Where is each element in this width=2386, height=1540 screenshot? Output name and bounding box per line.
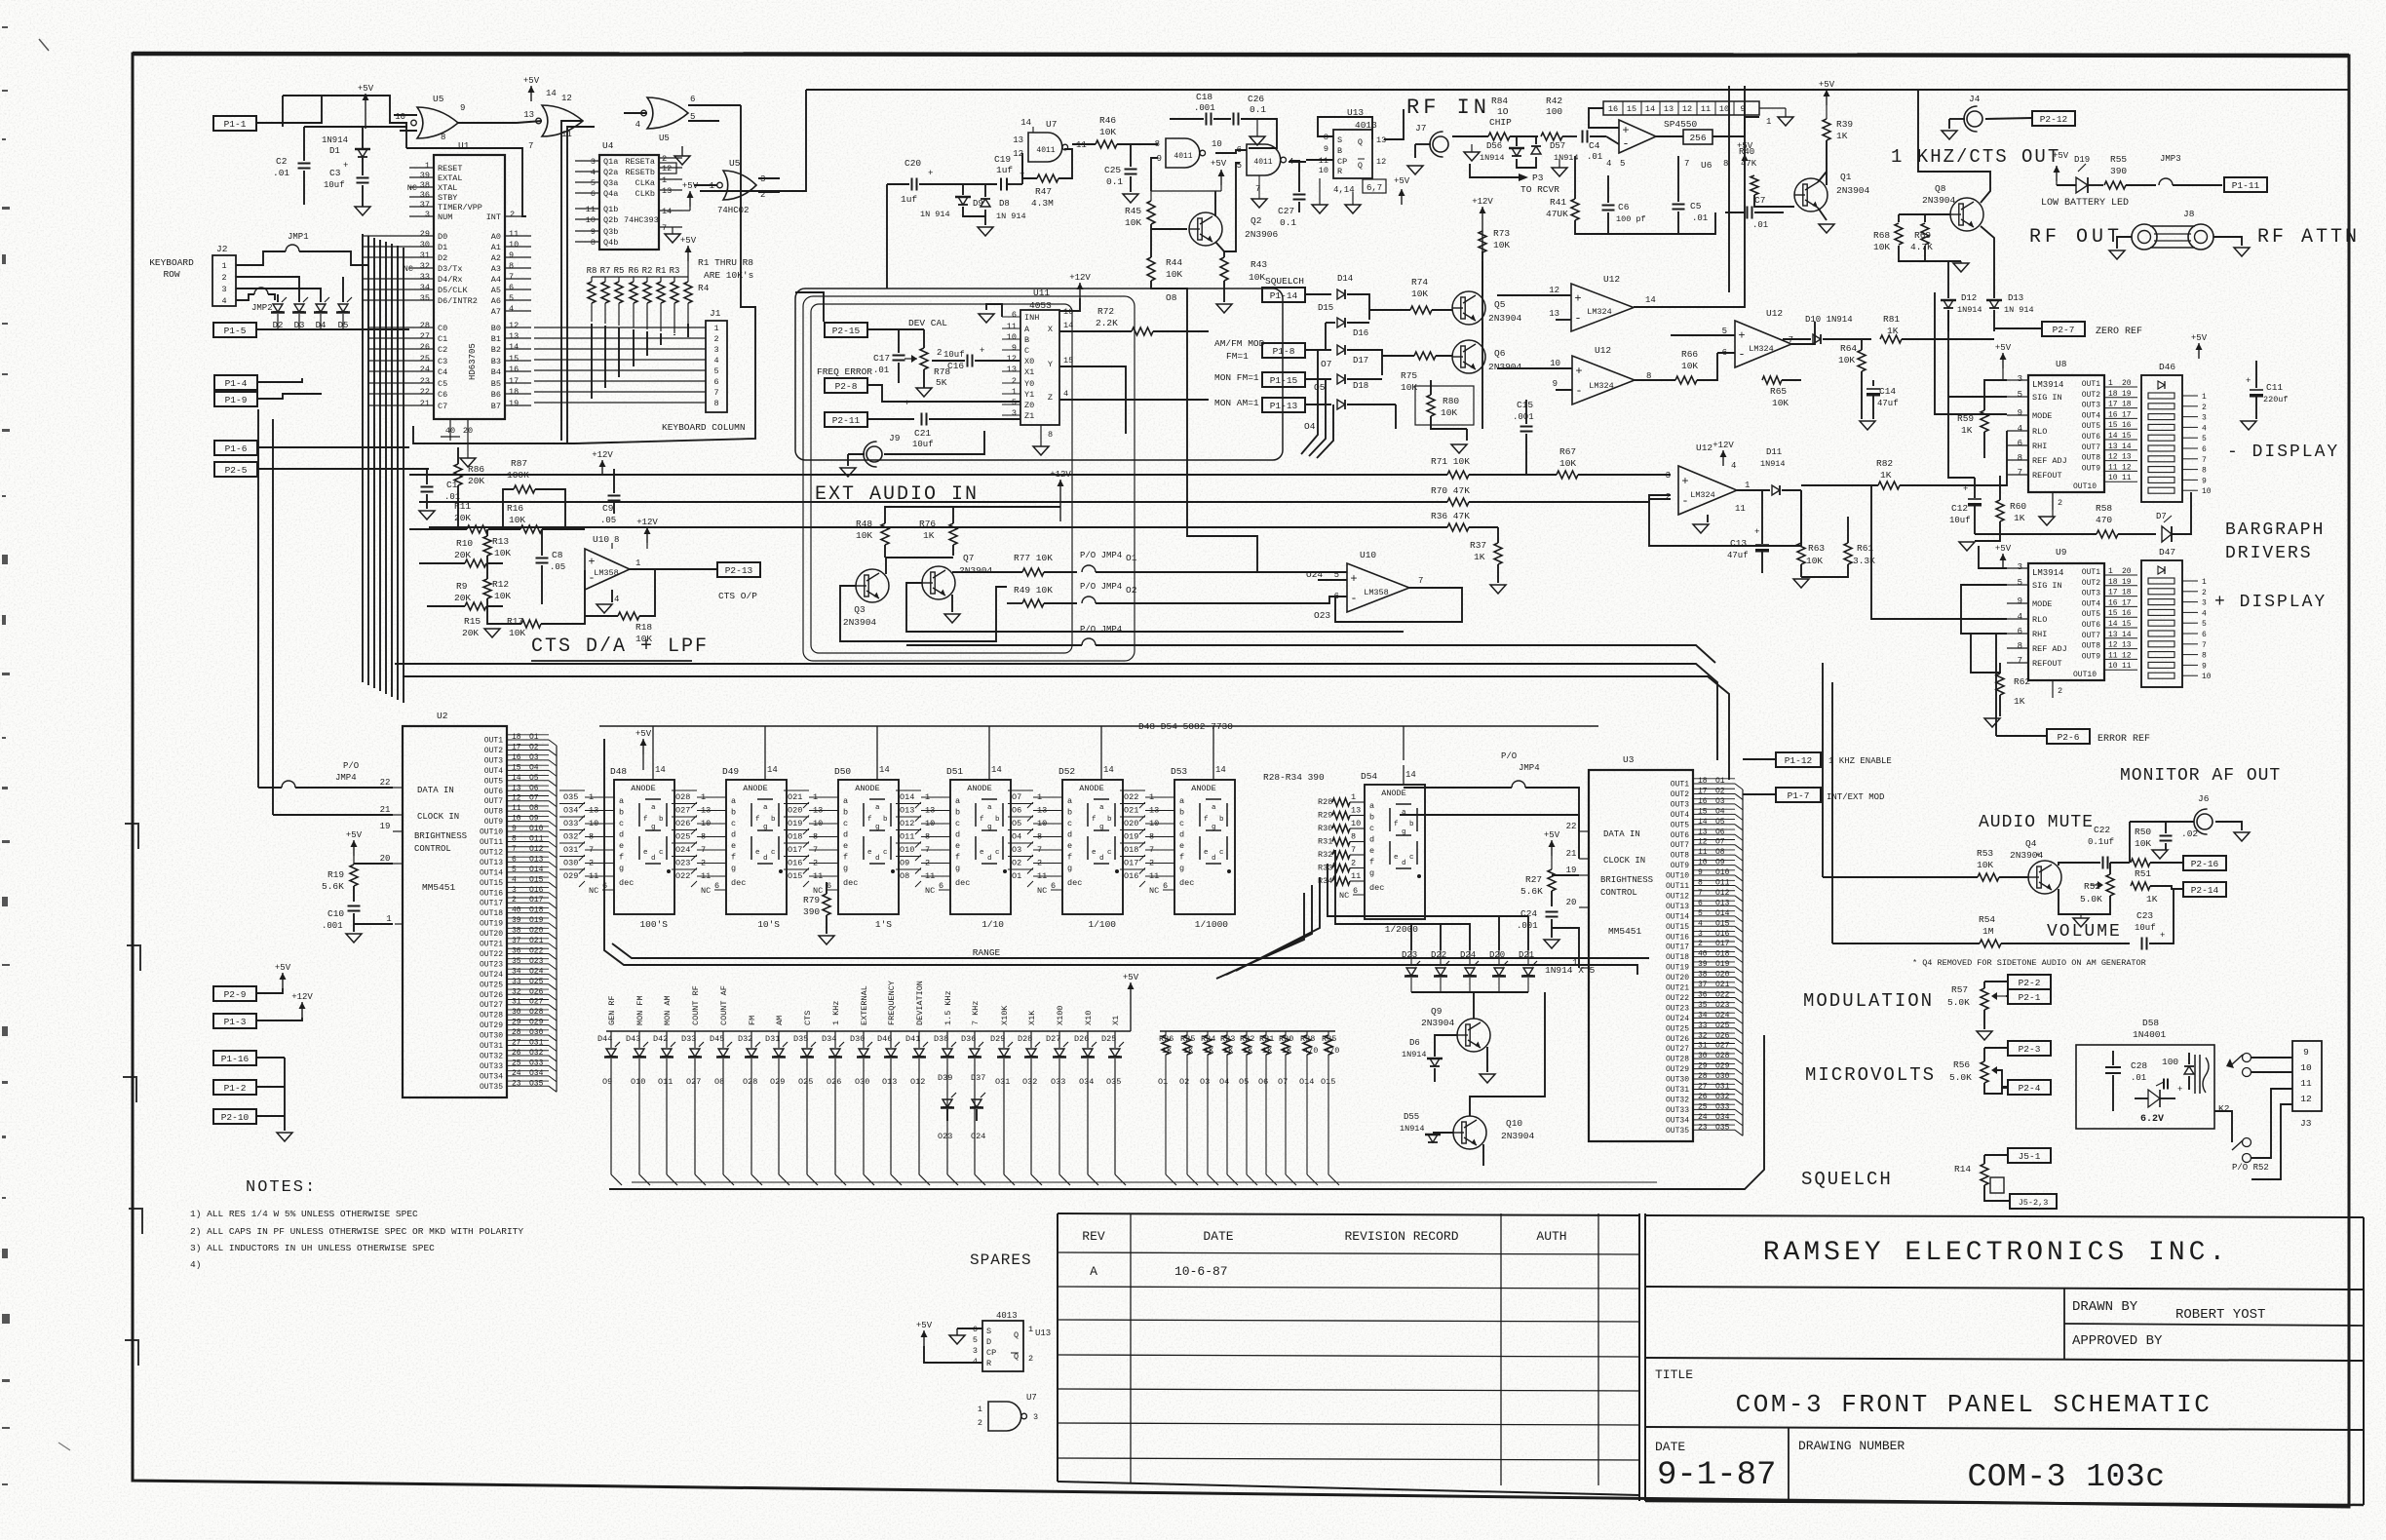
svg-text:8: 8 [1351,832,1356,842]
svg-text:8: 8 [2202,467,2207,476]
svg-text:Q3a: Q3a [603,178,618,188]
svg-text:1N914: 1N914 [322,135,348,145]
svg-text:14: 14 [546,89,557,98]
svg-text:31: 31 [1698,1042,1708,1051]
svg-text:g: g [1369,868,1374,878]
svg-text:47uf: 47uf [1877,399,1899,408]
svg-text:5: 5 [1698,909,1703,918]
svg-text:ERROR REF: ERROR REF [2097,734,2150,745]
svg-text:OUT6: OUT6 [1671,831,1689,840]
svg-text:f: f [843,853,848,863]
svg-text:.01: .01 [1752,220,1768,230]
ground under R62 [1984,718,2000,727]
svg-text:LM3914: LM3914 [2032,568,2063,578]
svg-text:2: 2 [510,210,515,219]
svg-text:R8: R8 [587,266,597,276]
svg-text:.01: .01 [873,366,889,375]
svg-text:MODE: MODE [2032,411,2052,421]
svg-text:10: 10 [586,215,596,225]
right boundary wire of keyboard block [575,105,755,443]
svg-text:SQUELCH: SQUELCH [1801,1169,1893,1190]
svg-text:OUT28: OUT28 [1666,1056,1689,1064]
svg-text:OUT1: OUT1 [2082,380,2100,389]
svg-text:OUT31: OUT31 [1666,1086,1689,1095]
connector P2-8 [825,378,867,393]
svg-text:5: 5 [509,293,514,303]
svg-text:g: g [875,824,880,831]
ground of P1-16/P1-2/P2-10 [284,1058,286,1131]
svg-text:27: 27 [420,331,430,341]
arrow P3 TO RCVR [1470,164,1519,177]
svg-text:.05: .05 [600,516,616,525]
svg-text:26: 26 [1698,1093,1708,1101]
svg-text:D25: D25 [1101,1034,1116,1044]
svg-text:U5: U5 [659,134,670,143]
svg-text:7: 7 [528,141,533,151]
svg-text:OUT4: OUT4 [484,767,503,776]
svg-text:2N3904: 2N3904 [1488,313,1522,324]
wires U8/U9 sig chain [1984,380,2007,400]
svg-text:37: 37 [420,200,430,210]
matrix drop wires [1301,350,1318,454]
svg-text:D43: D43 [626,1034,640,1044]
svg-text:7: 7 [1684,159,1689,169]
svg-text:4: 4 [1606,159,1611,169]
svg-text:R49 10K: R49 10K [1014,585,1053,596]
svg-text:U4: U4 [602,140,614,151]
svg-text:e: e [1369,846,1374,856]
svg-text:OUT27: OUT27 [480,1001,503,1010]
svg-text:34: 34 [420,283,430,292]
svg-text:b: b [619,808,624,818]
svg-text:X10: X10 [1084,1011,1094,1025]
svg-text:2N3904: 2N3904 [1488,362,1522,372]
svg-text:CLOCK IN: CLOCK IN [417,812,459,822]
svg-text:a: a [731,796,736,806]
svg-text:c: c [883,849,888,857]
svg-text:R29: R29 [1318,811,1332,821]
svg-text:a: a [1179,796,1184,806]
svg-text:J3: J3 [2300,1118,2312,1129]
svg-text:14: 14 [991,765,1002,775]
svg-text:20K: 20K [468,476,484,486]
svg-text:P/O JMP4: P/O JMP4 [1080,625,1122,635]
svg-text:RAMSEY ELECTRONICS INC.: RAMSEY ELECTRONICS INC. [1763,1238,2229,1268]
svg-text:1: 1 [2202,393,2207,402]
svg-text:COM-3 103c: COM-3 103c [1967,1459,2165,1495]
svg-text:C24: C24 [1520,908,1537,919]
svg-text:10K: 10K [1873,242,1890,252]
svg-text:D27: D27 [1046,1034,1060,1044]
power connector P2-9 [213,986,256,1001]
svg-text:5: 5 [1012,398,1017,407]
svg-text:OUT34: OUT34 [1666,1116,1689,1125]
svg-text:TITLE: TITLE [1655,1367,1693,1382]
svg-text:O1: O1 [1012,871,1021,881]
svg-text:g: g [1402,828,1406,836]
svg-text:dec: dec [843,878,858,888]
svg-text:d: d [1099,855,1104,863]
svg-text:17: 17 [509,376,519,386]
svg-text:O5: O5 [1314,382,1326,393]
svg-text:4.3M: 4.3M [1031,198,1054,209]
svg-text:O35: O35 [1106,1077,1121,1087]
transistor Q9 2N3904 [1457,1019,1490,1052]
svg-text:+: + [1574,292,1581,306]
svg-text:O28: O28 [675,792,690,802]
svg-text:15: 15 [1698,807,1708,816]
svg-text:C28: C28 [2131,1060,2147,1071]
svg-text:OUT7: OUT7 [1671,841,1689,850]
svg-text:R7: R7 [600,266,611,276]
svg-text:390: 390 [2110,166,2127,176]
svg-text:CLOCK IN: CLOCK IN [1603,856,1645,866]
svg-text:1M: 1M [1982,926,1994,937]
svg-text:+: + [928,169,933,178]
svg-text:14: 14 [1215,765,1226,775]
capacitor C28 .01 [2105,1066,2121,1068]
svg-text:SIG IN: SIG IN [2032,581,2062,591]
ground under C26 [1250,136,1265,145]
svg-text:c: c [771,849,776,857]
svg-text:RESETa: RESETa [625,157,655,167]
+12V at U10 [646,527,648,543]
svg-text:g: g [955,864,960,873]
svg-text:15: 15 [1063,356,1073,366]
wire U12b out [1791,322,1815,344]
svg-text:-: - [1622,136,1629,150]
svg-text:f: f [1204,816,1209,824]
svg-text:6: 6 [509,283,514,292]
drawn by box [2063,1288,2065,1360]
svg-text:10-6-87: 10-6-87 [1174,1264,1228,1279]
svg-text:AUDIO MUTE: AUDIO MUTE [1979,813,2094,832]
svg-text:O5: O5 [1012,819,1021,828]
svg-text:1K: 1K [2014,513,2025,523]
svg-text:O32: O32 [563,832,578,842]
svg-text:Q1a: Q1a [603,157,618,167]
svg-text:-: - [1575,384,1582,398]
svg-text:e: e [955,841,960,851]
svg-text:c: c [955,819,960,828]
svg-text:S: S [986,1327,991,1336]
svg-text:26: 26 [420,342,430,352]
svg-text:b: b [995,816,1000,824]
svg-text:14: 14 [879,765,890,775]
svg-text:33: 33 [420,272,430,282]
svg-text:19: 19 [380,822,391,831]
svg-text:B6: B6 [491,390,501,400]
svg-text:O19: O19 [1124,832,1138,842]
svg-text:R39: R39 [1836,119,1853,130]
svg-text:U1: U1 [458,140,470,151]
svg-text:SIG IN: SIG IN [2032,393,2062,403]
svg-text:g: g [619,864,624,873]
svg-text:36: 36 [420,190,430,200]
svg-text:+: + [2177,1085,2182,1095]
svg-text:OUT30: OUT30 [1666,1076,1689,1085]
svg-text:O32: O32 [529,1049,544,1058]
svg-text:+: + [1963,484,1968,494]
svg-text:C16: C16 [947,361,964,371]
svg-text:e: e [755,849,760,857]
svg-text:R65: R65 [1770,386,1787,397]
svg-text:D10 1N914: D10 1N914 [1805,315,1853,325]
svg-text:1uf: 1uf [996,165,1013,175]
svg-text:26: 26 [512,1049,521,1058]
svg-text:REF ADJ: REF ADJ [2032,456,2067,466]
svg-text:LM358: LM358 [1364,588,1389,597]
svg-text:8: 8 [1155,139,1160,149]
svg-text:2N3904: 2N3904 [843,617,877,628]
svg-text:B1: B1 [491,334,501,344]
svg-text:.001: .001 [322,921,343,931]
svg-text:1: 1 [386,914,391,924]
svg-text:29: 29 [420,229,430,239]
svg-text:O8: O8 [1166,292,1177,303]
svg-text:34: 34 [1698,1011,1708,1020]
svg-text:C27: C27 [1278,206,1294,216]
svg-text:A3: A3 [491,264,501,274]
svg-text:D20: D20 [1489,950,1505,960]
svg-text:CONTROL: CONTROL [414,844,451,854]
svg-text:100'S: 100'S [639,919,668,930]
svg-text:C7: C7 [1754,195,1765,206]
svg-text:f: f [1394,821,1399,828]
connector J5-2,3 [2010,1194,2057,1209]
svg-text:D17: D17 [1353,356,1368,366]
svg-text:JMP3: JMP3 [2160,154,2181,164]
svg-text:1O: 1O [1497,106,1509,117]
svg-text:b: b [1107,816,1112,824]
ground under R78 [916,388,932,397]
svg-text:B4: B4 [491,367,501,377]
svg-text:O25: O25 [798,1077,813,1087]
svg-text:P1-6: P1-6 [225,443,248,454]
NAND gate U7c 4011 [1247,144,1281,175]
svg-text:R54: R54 [1979,914,1995,925]
svg-text:ANODE: ANODE [967,784,992,793]
+5V at display anode bus [642,739,644,754]
svg-text:15: 15 [509,354,519,364]
svg-text:6: 6 [591,189,596,199]
svg-text:6,7: 6,7 [1366,183,1382,193]
svg-text:LM324: LM324 [1690,490,1715,500]
counter U4 74HC393 [599,155,659,250]
relay contacts bottom [2243,1138,2251,1147]
svg-text:R63: R63 [1808,543,1825,554]
ground at U10 pin4 [611,590,613,602]
mux U11 4053 [1020,310,1059,425]
svg-text:d: d [731,830,736,840]
svg-text:10: 10 [1719,104,1729,114]
svg-text:9: 9 [509,250,514,260]
U1 bottom wire [413,426,575,443]
svg-text:A2: A2 [491,253,501,263]
svg-text:f: f [980,816,984,824]
svg-text:ROBERT YOST: ROBERT YOST [2175,1307,2265,1323]
svg-text:HD63705: HD63705 [468,343,478,380]
svg-text:10K: 10K [1125,217,1141,228]
display D53 7-segment [1174,780,1235,914]
connector P1-6 [214,441,257,455]
svg-text:6: 6 [1237,145,1242,155]
svg-text:C0: C0 [438,324,447,333]
svg-text:D12: D12 [1961,293,1977,303]
svg-text:O3: O3 [1012,845,1021,855]
svg-text:O27: O27 [675,806,690,816]
output to P2-13 [630,568,717,570]
svg-text:f: f [755,816,760,824]
svg-text:R43: R43 [1251,259,1267,270]
svg-text:38: 38 [420,180,430,190]
svg-text:BRIGHTNESS: BRIGHTNESS [414,831,467,841]
svg-text:c: c [995,849,1000,857]
svg-text:e: e [980,849,984,857]
svg-text:OUT17: OUT17 [1666,943,1689,952]
svg-text:10K: 10K [1441,407,1457,418]
svg-text:OUT8: OUT8 [2082,642,2100,651]
svg-text:OUT5: OUT5 [2082,610,2100,619]
ground U4 pin 7 [665,234,680,243]
svg-text:OUT23: OUT23 [1666,1004,1689,1013]
svg-text:OUT12: OUT12 [1666,892,1689,901]
svg-text:4: 4 [2018,612,2022,622]
svg-text:e: e [1067,841,1072,851]
svg-text:1: 1 [1028,1325,1033,1334]
svg-text:RF IN: RF IN [1406,96,1490,120]
svg-text:P3: P3 [1532,173,1544,183]
svg-text:Q3: Q3 [854,604,866,615]
svg-text:D6/INTR2: D6/INTR2 [438,296,478,306]
svg-text:10K: 10K [494,548,511,558]
svg-text:10: 10 [1319,166,1328,175]
svg-text:CP: CP [1337,157,1347,167]
svg-text:c: c [1107,849,1112,857]
svg-text:CONTROL: CONTROL [1600,888,1637,898]
svg-text:R70 47K: R70 47K [1431,485,1470,496]
svg-text:16: 16 [1608,104,1618,114]
svg-text:D44: D44 [597,1034,612,1044]
svg-text:1K: 1K [1474,552,1485,562]
svg-text:O4: O4 [1012,832,1021,842]
svg-text:P1-15: P1-15 [1270,375,1298,386]
svg-text:24: 24 [512,1069,521,1078]
svg-text:+: + [2246,376,2251,386]
U11 Y/Z wires [1059,366,1126,434]
svg-text:OUT8: OUT8 [484,808,503,817]
svg-text:P1-2: P1-2 [224,1083,247,1094]
svg-text:R41: R41 [1550,197,1566,208]
svg-text:c: c [619,819,624,828]
svg-text:O19: O19 [788,819,802,828]
svg-text:20K: 20K [454,550,471,560]
svg-text:OUT8: OUT8 [2082,454,2100,463]
grounds under U13 [1312,205,1328,213]
svg-text:O23: O23 [938,1132,952,1141]
svg-text:C14: C14 [1879,386,1896,397]
bargraph driver U8 LM3914 [2028,375,2104,492]
svg-text:13: 13 [509,331,519,341]
svg-text:NC: NC [1339,891,1349,901]
svg-text:16: 16 [509,365,519,374]
svg-text:B: B [1024,335,1029,345]
svg-text:O9: O9 [900,859,909,868]
svg-text:C6: C6 [1618,202,1630,212]
svg-text:13: 13 [1664,104,1674,114]
svg-text:1: 1 [713,324,718,333]
svg-text:LM324: LM324 [1749,344,1774,354]
svg-text:c: c [1067,819,1072,828]
svg-text:7 KHz: 7 KHz [971,1000,981,1025]
svg-text:7: 7 [509,272,514,282]
svg-text:5: 5 [512,866,517,874]
svg-text:R64: R64 [1840,343,1857,354]
svg-text:OUT2: OUT2 [484,747,503,755]
connector P1-12 1 KHZ ENABLE [1776,752,1821,767]
svg-text:5: 5 [2202,620,2207,629]
svg-text:R51: R51 [2135,868,2151,879]
svg-text:9: 9 [1324,144,1328,154]
svg-text:B2: B2 [491,345,501,355]
display driver U3 MM5451 [1589,770,1693,1141]
svg-text:R: R [1337,167,1342,176]
svg-text:EXTERNAL: EXTERNAL [860,985,869,1025]
svg-text:OUT19: OUT19 [480,920,503,929]
svg-text:OUT31: OUT31 [480,1042,503,1051]
svg-text:R86: R86 [468,464,484,475]
svg-text:OUT25: OUT25 [480,981,503,989]
svg-text:OUT3: OUT3 [1671,800,1689,809]
svg-text:O30: O30 [855,1077,869,1087]
svg-text:C19: C19 [994,154,1011,165]
+5V above U9 [2002,554,2004,569]
svg-text:14: 14 [1063,321,1073,330]
svg-text:14: 14 [1405,770,1416,780]
slant bundle from D54 to bus [1236,877,1320,971]
svg-text:30: 30 [420,240,430,250]
wire down from C20 node [886,184,888,289]
svg-text:R71 10K: R71 10K [1431,456,1470,467]
svg-text:a: a [843,796,848,806]
svg-text:f: f [955,853,960,863]
svg-text:D4/Rx: D4/Rx [438,275,463,285]
svg-text:A6: A6 [491,296,501,306]
U1 outer wire loop [406,148,526,216]
svg-text:O23: O23 [675,859,690,868]
svg-text:1 KHz: 1 KHz [831,1000,841,1025]
svg-text:D41: D41 [905,1034,920,1044]
svg-text:Y1: Y1 [1024,390,1034,400]
svg-text:D38: D38 [934,1034,948,1044]
svg-text:10: 10 [509,240,519,250]
svg-text:OUT19: OUT19 [1666,964,1689,973]
svg-text:5.0K: 5.0K [1947,997,1970,1008]
svg-text:g: g [731,864,736,873]
svg-text:FM=1: FM=1 [1226,351,1249,362]
svg-text:10: 10 [1698,859,1708,867]
svg-text:O24: O24 [971,1132,985,1141]
Q5/Q6 collector rail +12V [1482,251,1483,429]
svg-text:R72: R72 [1097,306,1114,317]
svg-text:4: 4 [973,1357,978,1367]
svg-text:C18: C18 [1196,92,1212,102]
svg-text:Q: Q [1358,161,1363,171]
NOR gate U5b [542,105,583,136]
svg-text:10K: 10K [1838,355,1855,366]
svg-text:C22: C22 [2094,825,2110,835]
svg-text:O4: O4 [529,763,539,772]
